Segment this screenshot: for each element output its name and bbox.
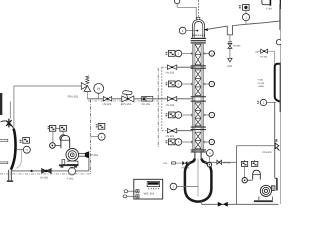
svg-text:HV-401: HV-401 — [223, 162, 231, 165]
packing section B hatch — [195, 70, 201, 96]
distillation column C-301 — [191, 17, 206, 152]
PSV-202 relief valve — [81, 76, 90, 92]
branch lines into column — [177, 66, 193, 68]
svg-text:LPN: LPN — [163, 162, 168, 165]
F-201 filter oval — [69, 167, 76, 175]
motor cylinder — [61, 135, 70, 148]
HV-202 valve — [103, 97, 111, 101]
dark bottoms valve — [218, 202, 223, 207]
svg-text:WIC-201: WIC-201 — [144, 192, 155, 195]
bottom nozzle — [9, 170, 12, 181]
top-left pipe from reactor — [14, 85, 81, 87]
TT square + circle on overhead line — [239, 5, 241, 6]
casing — [260, 185, 271, 196]
TI row 2 — [166, 81, 215, 88]
motor — [253, 170, 261, 179]
svg-text:BCV-203: BCV-203 — [121, 103, 132, 106]
LI circle near vessel bottom — [257, 100, 259, 103]
overhead vapour line with loop seal — [207, 21, 280, 35]
valve on right line — [217, 160, 222, 164]
svg-text:HV-204: HV-204 — [166, 104, 175, 107]
shell walls (double) — [193, 44, 203, 153]
vertical valve HV-602 — [228, 43, 232, 48]
vessel wall (thick) — [11, 129, 16, 170]
battery limit dash-dot boundary — [157, 68, 159, 147]
PSV-301 — [237, 145, 276, 147]
right side V-401 / PSV-301 / P-401 — [237, 40, 282, 205]
CK-201 check valve — [142, 97, 153, 102]
svg-text:PI: PI — [97, 87, 100, 91]
HV-203 valve — [167, 65, 176, 70]
suction circle — [50, 143, 56, 149]
packing section D hatch — [195, 132, 201, 149]
packing section A hatch — [195, 44, 201, 65]
vessel V-401 wall — [275, 64, 281, 102]
main feed pipe to column — [87, 98, 192, 100]
svg-text:+30ML: +30ML — [258, 85, 266, 88]
band A/B — [191, 65, 206, 68]
band B/C — [191, 96, 206, 102]
manifold dashed header — [161, 67, 163, 131]
third instrument pair — [96, 123, 98, 126]
discharge flange to riser — [272, 186, 275, 191]
pump instrument squares — [48, 125, 50, 128]
vessel V-401 inlet drop — [274, 51, 276, 64]
svg-text:F-201: F-201 — [67, 178, 74, 181]
baseplate — [62, 160, 65, 165]
svg-text:HV-205: HV-205 — [166, 135, 175, 138]
PI gauge — [98, 93, 100, 99]
discharge riser down to pipe — [88, 158, 90, 171]
partial circle at right edge — [276, 40, 281, 45]
trace dash-dot along bottoms pipe — [0, 173, 91, 175]
stem from square1 down to suction — [52, 131, 54, 143]
svg-text:CK-201: CK-201 — [142, 103, 151, 106]
drain funnel — [228, 58, 232, 62]
stem down to circle — [244, 166, 246, 177]
TI row 4 — [166, 139, 215, 146]
TI row 3 — [166, 112, 215, 119]
PT circle top-left — [174, 0, 179, 4]
right outlet line from neck — [205, 161, 237, 163]
svg-text:HV-202: HV-202 — [103, 103, 112, 106]
top nozzle — [197, 17, 200, 19]
svg-text:HV-301: HV-301 — [40, 176, 49, 179]
svg-text:HV-302: HV-302 — [182, 166, 190, 169]
instrument TI on reactor — [16, 137, 30, 153]
signal line to column top — [177, 7, 196, 19]
package boundary dash-dot — [90, 100, 92, 174]
TI row 1 — [166, 50, 215, 57]
right edge faint border — [279, 9, 281, 204]
BCV-203 control valve — [122, 91, 134, 102]
column TI rows (squares+circles) — [166, 50, 215, 145]
HV-301 valve — [42, 169, 52, 174]
top nozzle valve cluster — [6, 119, 11, 128]
casing circles — [66, 149, 79, 162]
bolt dots band — [193, 35, 205, 36]
dip tube — [197, 159, 199, 197]
svg-text:V-401: V-401 — [258, 79, 264, 82]
svg-text:P-301: P-301 — [91, 154, 99, 157]
condenser E-302 (top right corner) — [262, 0, 270, 5]
drain from loop seal — [229, 35, 231, 42]
svg-text:HV-602: HV-602 — [233, 44, 241, 47]
small dark circle on stem — [207, 163, 211, 167]
packing section C hatch — [195, 103, 201, 126]
dashed line to column top nozzle — [198, 0, 200, 17]
pump P-301 — [48, 123, 106, 170]
bottoms transfer pipe from reactor — [12, 170, 89, 172]
TI circle above right shoulder — [206, 150, 213, 157]
jacket stub lower — [0, 161, 8, 164]
PV-401 valve and line into vessel — [257, 50, 275, 52]
jacket stub upper — [0, 139, 8, 142]
base — [259, 197, 273, 201]
flask body (thick wall) — [185, 159, 212, 202]
neck walls — [194, 153, 196, 159]
svg-text:PSV-301: PSV-301 — [262, 151, 272, 154]
reactor R-201 vessel (left edge, partially cut) — [0, 86, 21, 182]
riser from vessel top to top pipe — [13, 86, 15, 128]
flask level instrument — [170, 183, 177, 190]
dome (double wall) — [192, 20, 204, 38]
bottom flange bars — [191, 149, 206, 152]
svg-text:ATM: ATM — [227, 65, 232, 68]
svg-text:HV-203: HV-203 — [166, 72, 175, 75]
svg-text:C17ML: C17ML — [258, 82, 266, 85]
discharge — [79, 152, 85, 154]
reboiler flask — [163, 150, 279, 207]
reflux / overhead lines — [174, 0, 281, 204]
steam-trace dash-dot along feed pipe — [88, 100, 158, 102]
pump instrument squares — [244, 160, 246, 162]
vessel dome — [1, 121, 14, 129]
package box — [236, 146, 238, 205]
pipe from vessel bottom to pump — [274, 102, 276, 178]
svg-text:E-302: E-302 — [266, 7, 273, 10]
HV-204 valve — [167, 97, 176, 102]
reflux return arrow into dome — [204, 28, 208, 31]
svg-text:HV: HV — [255, 51, 259, 54]
WIC controller — [123, 179, 163, 199]
svg-text:PV-401: PV-401 — [260, 55, 268, 58]
band C/D — [191, 127, 206, 131]
dark valve on purge line — [182, 161, 185, 165]
HV-205 valve — [167, 128, 176, 133]
LI circle at dome — [179, 27, 186, 34]
svg-text:PSV-202: PSV-202 — [68, 95, 79, 98]
top flange bars — [191, 38, 206, 44]
jacket outer line — [17, 149, 22, 169]
bottom outlet — [201, 201, 203, 205]
agitator motor — [0, 93, 2, 115]
bottoms pipe — [202, 203, 279, 205]
